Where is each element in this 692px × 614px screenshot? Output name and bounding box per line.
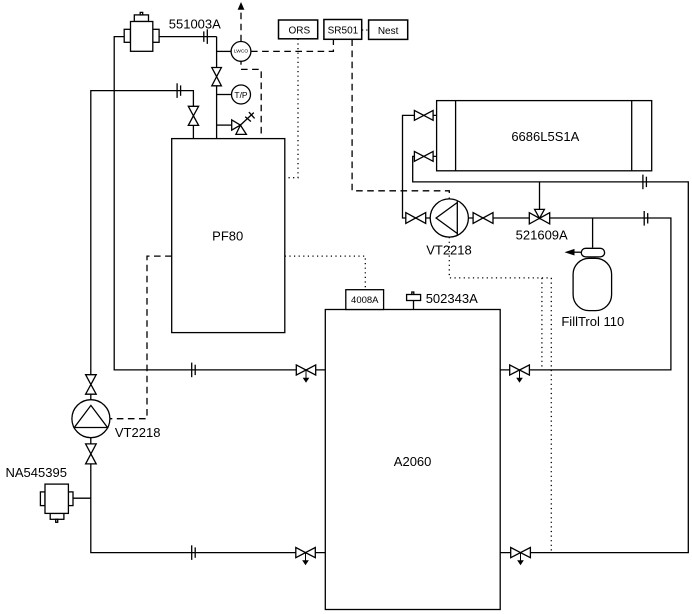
union on tank lower-left run <box>192 545 196 560</box>
valve pump suction <box>406 213 426 224</box>
relief fitting 502343A on tank <box>407 292 421 301</box>
svg-text:FillTrol 110: FillTrol 110 <box>561 314 624 329</box>
pump VT2218 (left) <box>72 400 110 438</box>
FillTrol 110 expansion tank <box>565 248 612 310</box>
valve HX lower <box>414 151 433 161</box>
heat exchanger 6686L5S1A <box>437 101 652 171</box>
controller box 4008A on tank top <box>346 290 384 310</box>
control wire (dashed): LWCO to SR501 <box>251 39 333 51</box>
controller box SR501 <box>324 20 362 40</box>
pipe: relief valve stub <box>217 124 232 126</box>
svg-text:6686L5S1A: 6686L5S1A <box>511 129 579 144</box>
control wire (dashed): boiler to left pump <box>110 256 172 419</box>
sensor wire (dotted): boiler to 4008A <box>285 256 366 290</box>
pipe: boiler left circuit (riser B, header y90.6, left drop x90.8, bottom run to tank) <box>91 91 325 553</box>
sensor wire (dotted): pump down and across <box>449 237 551 278</box>
relief valve on boiler riser <box>232 112 255 134</box>
svg-text:4008A: 4008A <box>351 295 379 306</box>
valve tank lower-right with drain <box>511 548 531 565</box>
fill valve 551003A body <box>124 12 159 51</box>
valve pump discharge <box>473 213 493 224</box>
union on 551003A outlet <box>204 29 208 44</box>
sensor wire (dotted): ORS to boiler <box>285 39 298 178</box>
svg-text:VT2218: VT2218 <box>115 425 161 440</box>
valve below left pump <box>86 444 97 464</box>
gauge T/P <box>232 85 251 104</box>
svg-text:551003A: 551003A <box>169 16 221 31</box>
valve above left pump <box>86 375 97 395</box>
sensor wire (dotted): drop to tank lower pipe <box>550 278 552 553</box>
pipe: NA545395 to left drop <box>73 497 91 499</box>
pipe: 551003A outlet to riser A <box>159 36 217 38</box>
pipe: fill line from 551003A left tab down x114.2 and tank upper-left run <box>114 37 325 370</box>
sensor wire (dotted): drop to tank upper pipe <box>541 278 543 370</box>
svg-text:Nest: Nest <box>378 26 399 37</box>
pipe: LWCO stub <box>217 50 232 52</box>
union on 3-way outlet line <box>644 211 648 226</box>
svg-text:SR501: SR501 <box>328 26 359 37</box>
valve tank lower-left with drain <box>296 548 316 565</box>
vent arrow above LWCO (dashed) <box>238 2 245 41</box>
controller box ORS <box>279 20 318 39</box>
pump VT2218 (right) <box>430 199 468 237</box>
union on y90.6 header <box>177 83 181 98</box>
3-way zone valve 521609A <box>529 209 549 224</box>
control wire (dashed): SR501 down to pump <box>352 39 449 198</box>
svg-text:PF80: PF80 <box>212 229 243 244</box>
svg-text:ORS: ORS <box>288 26 310 37</box>
svg-text:A2060: A2060 <box>394 454 432 469</box>
svg-text:T/P: T/P <box>234 90 248 100</box>
valve on riser A <box>212 68 222 86</box>
svg-text:NA545395: NA545395 <box>6 465 67 480</box>
valve tank upper-right with drain <box>510 365 530 382</box>
backflow preventer NA545395 body <box>40 484 73 522</box>
svg-text:521609A: 521609A <box>516 228 568 243</box>
pipe: HX lower port down, bottom return along right side to tank lower-right <box>413 156 689 552</box>
union on tank upper-left run <box>192 363 196 378</box>
pipe: riser A into boiler top <box>216 37 218 139</box>
gauge LWCO <box>231 42 251 62</box>
svg-text:VT2218: VT2218 <box>426 242 472 257</box>
valve HX upper <box>414 110 433 120</box>
pipe: branch from return line down into 3-way valve top <box>539 182 541 210</box>
pipe: FillTrol drop <box>592 218 594 248</box>
control wire (dashed): LWCO to boiler top <box>241 69 261 138</box>
pipe: 502343A stem <box>413 300 415 309</box>
pipe: T/P stub <box>217 94 232 96</box>
boiler PF80 <box>172 139 285 333</box>
controller box Nest <box>369 20 408 39</box>
pipe: LWCO bottom stub <box>240 61 242 64</box>
valve tank upper-left with drain <box>296 365 315 382</box>
tank A2060 <box>325 310 500 610</box>
union on HX return line <box>643 175 647 190</box>
link (dotted): SR501 to Nest <box>362 29 369 31</box>
svg-text:502343A: 502343A <box>426 291 478 306</box>
valve on riser B <box>188 106 198 125</box>
pipe: HX upper port to pump line, across to 3-way and down to tank upper-right <box>403 115 671 370</box>
svg-text:LWCO: LWCO <box>234 48 249 54</box>
